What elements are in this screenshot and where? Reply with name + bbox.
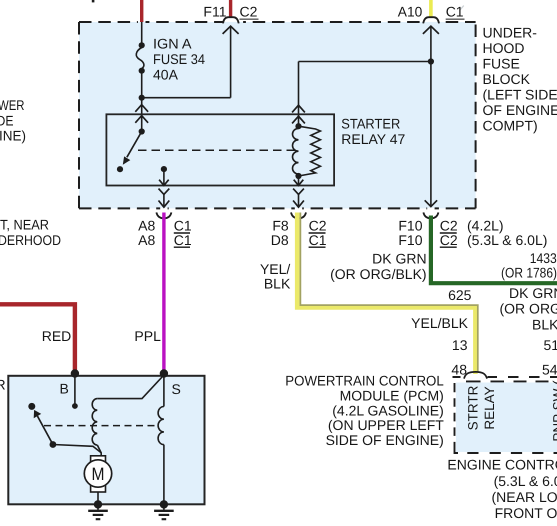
wire F11 internal vertical: [230, 26, 232, 97]
chevron below relay A8: [159, 189, 170, 195]
terminal B dot: [71, 369, 79, 377]
pull-in winding coil arcs: [92, 399, 97, 445]
svg-text:M: M: [92, 464, 105, 484]
wire red to F11 connector: [229, 0, 232, 18]
svg-text:40A: 40A: [153, 66, 179, 82]
svg-text:B: B: [60, 380, 69, 396]
starter relay 47 box: [106, 114, 334, 185]
ground symbol motor: [97, 504, 99, 509]
PCM top border dashed row 2: [466, 380, 549, 382]
svg-text:OF ENGINE: OF ENGINE: [483, 102, 557, 118]
svg-text:DK GRN: DK GRN: [509, 285, 557, 301]
relay switch rest contact dot: [117, 166, 123, 172]
hold-in winding coil arcs: [158, 407, 164, 445]
svg-text:(LEFT SIDE: (LEFT SIDE: [483, 87, 557, 103]
wire hold-in winding to ground: [163, 445, 165, 501]
svg-text:STRTRRELAY: STRTRRELAY: [466, 385, 497, 430]
svg-text:F10: F10: [398, 232, 422, 248]
svg-text:C1: C1: [309, 232, 327, 248]
chevron up arrow below A10: [423, 26, 439, 34]
chevron pair at relay switch input: [135, 105, 148, 112]
pinion switch contact dot: [28, 403, 35, 410]
relay coil resistor zigzag: [299, 126, 321, 176]
wire S to pull-in winding: [97, 375, 164, 399]
svg-text:RED: RED: [42, 328, 72, 344]
svg-text:(NEAR LOWER: (NEAR LOWER: [492, 489, 557, 505]
svg-text:COMPT): COMPT): [483, 118, 538, 134]
wire PPL A8 to starter S: [162, 213, 165, 372]
svg-text:YEL/BLK: YEL/BLK: [411, 315, 468, 331]
arrowhead onto fuse block border F10: [425, 200, 437, 206]
fuse F34 element squiggle: [136, 48, 144, 69]
svg-text:1433: 1433: [530, 250, 557, 266]
svg-text:D8: D8: [271, 232, 289, 248]
underhood fuse block dashed border bottom: [79, 207, 476, 209]
relay switch blade arrowhead: [123, 156, 131, 164]
relay switch output contact dot: [161, 166, 167, 172]
svg-text:DK GRN: DK GRN: [372, 251, 426, 267]
wire RED thick battery to starter B: [0, 304, 75, 371]
wire pull-in winding to motor: [97, 445, 101, 456]
svg-text:C1: C1: [174, 232, 192, 248]
wire DK GRN from F10: [431, 216, 557, 284]
connector F11 bump: [223, 17, 239, 23]
pinion switch blade arrowhead: [34, 410, 42, 418]
svg-text:UNDER-: UNDER-: [483, 25, 538, 41]
svg-text:R: R: [0, 376, 6, 392]
underhood fuse block dashed border top: [79, 21, 476, 23]
wire fuse bottom to junction: [141, 71, 143, 98]
svg-text:(ON UPPER LEFT: (ON UPPER LEFT: [328, 417, 444, 433]
fuse F34 top terminal dot: [139, 42, 145, 48]
ground dot hold-in winding: [160, 500, 168, 508]
svg-text:IGN A: IGN A: [153, 35, 192, 51]
PCM box fill: [456, 383, 557, 453]
starter motor box: [8, 376, 204, 505]
wire motor to ground: [97, 492, 99, 501]
node junction A10 branch: [428, 58, 434, 64]
chevron below relay F8: [293, 189, 304, 195]
svg-text:FRONT OF: FRONT OF: [495, 505, 557, 521]
svg-text:SIDE OF ENGINE): SIDE OF ENGINE): [326, 432, 444, 448]
svg-text:A8: A8: [138, 232, 155, 248]
svg-text:FUSE 34: FUSE 34: [153, 51, 205, 67]
wire pinion switch to motor node: [53, 445, 101, 453]
svg-text:BLK): BLK): [532, 316, 557, 332]
svg-text:PNP SW (: PNP SW (: [551, 380, 557, 442]
wire S vertical to hold-in winding: [163, 374, 165, 407]
connector A10 bump: [423, 17, 439, 23]
terminal B stub wire: [74, 377, 76, 404]
arrowhead onto relay border F8: [294, 180, 304, 186]
svg-text:DERHOOD: DERHOOD: [0, 232, 61, 248]
wire YEL/BLK F8 to PCM pin 48: [297, 213, 475, 375]
terminal S dot: [160, 369, 168, 377]
svg-text:(OR 1786): (OR 1786): [501, 265, 557, 281]
PCM connector 48 bump: [464, 372, 487, 379]
connector F10 cup: [423, 212, 438, 218]
svg-text:WER: WER: [0, 97, 25, 113]
wire YEL/BLK black stripe: [300, 213, 477, 372]
svg-text:C2: C2: [240, 4, 258, 20]
svg-text:T, NEAR: T, NEAR: [0, 217, 49, 233]
relay coil bottom dot: [295, 173, 301, 179]
arrowhead onto fuse block border A8: [163, 194, 165, 207]
svg-text:FUSE: FUSE: [483, 56, 520, 72]
svg-text:INE): INE): [0, 128, 26, 144]
svg-text:DE: DE: [0, 112, 14, 128]
underhood fuse block dashed border right: [475, 25, 477, 209]
svg-text:MODULE (PCM): MODULE (PCM): [340, 388, 444, 404]
svg-text:(OR ORG/BLK): (OR ORG/BLK): [330, 266, 426, 282]
connector A8 cup: [156, 212, 171, 218]
svg-text:C1: C1: [446, 4, 464, 20]
motor M circle: [84, 460, 111, 487]
chevron pair at relay coil input: [292, 105, 305, 112]
wire yellow to A10 connector: [429, 0, 433, 18]
fuse IGN A feed wire: [141, 22, 143, 45]
wire F11 internal horizontal to fuse bottom: [142, 97, 231, 99]
wire branch horizontal to relay coil: [299, 61, 431, 63]
svg-text:BLOCK: BLOCK: [483, 71, 531, 87]
svg-text:PPL: PPL: [134, 328, 161, 344]
wire F11 internal: chevron up arrow: [223, 26, 239, 34]
relay mechanical dashed link: [138, 149, 296, 151]
wire branch vertical to relay coil: [298, 62, 300, 127]
connector F8 cup: [291, 212, 306, 218]
starter mechanical dashed link: [44, 425, 159, 427]
svg-text:F11: F11: [203, 4, 226, 20]
pinion switch blade: [37, 416, 53, 445]
relay coil output F8: wire to relay border: [298, 176, 300, 185]
svg-text:(OR ORG/: (OR ORG/: [500, 300, 557, 316]
relay coil top dot: [295, 123, 301, 129]
PCM top border dashed row 1: [453, 376, 557, 378]
PCM bottom border dashed: [467, 452, 557, 454]
svg-text:BLK: BLK: [264, 276, 291, 292]
pinion switch pivot dot: [50, 441, 57, 448]
underhood fuse block dashed border left: [78, 22, 80, 208]
arrowhead onto fuse block border F8: [298, 194, 300, 207]
svg-text:HOOD: HOOD: [483, 40, 525, 56]
ground dot motor: [94, 500, 102, 508]
stray gray mark near top right: [460, 6, 464, 11]
stray mark top edge: [92, 0, 95, 2]
svg-text:RELAY 47: RELAY 47: [341, 131, 405, 147]
svg-text:POWERTRAIN CONTROL: POWERTRAIN CONTROL: [285, 373, 444, 389]
svg-text:54: 54: [542, 361, 557, 377]
svg-text:51: 51: [544, 337, 557, 353]
wire A10 internal vertical: [430, 26, 432, 206]
arrowhead onto relay border A8: [159, 180, 169, 186]
relay switch pivot dot: [139, 128, 145, 134]
border gaps at wire crossings: [138, 21, 444, 211]
motor M brush frame: [91, 456, 106, 492]
relay coil winding arcs: [293, 128, 299, 174]
svg-text:13: 13: [452, 337, 468, 353]
svg-text:C2: C2: [440, 232, 458, 248]
fuse F34 bottom terminal dot: [139, 68, 145, 74]
terminal B stub end dot: [72, 403, 78, 409]
svg-text:(4.2L GASOLINE): (4.2L GASOLINE): [332, 402, 444, 418]
PCM left border dashed: [455, 383, 459, 453]
relay switch blade: [127, 132, 142, 158]
relay output A8: wire from contact to relay border: [163, 169, 165, 185]
node junction fuse / F11: [139, 95, 145, 101]
svg-text:48: 48: [451, 361, 467, 377]
wire red battery feed to fuse: [140, 0, 143, 22]
svg-text:STARTER: STARTER: [341, 116, 400, 132]
svg-text:(5.3L & 6.0L): (5.3L & 6.0L): [467, 232, 547, 248]
ground symbol hold-in winding: [163, 504, 165, 509]
svg-text:S: S: [172, 381, 181, 397]
svg-text:(5.3L & 6.0L: (5.3L & 6.0L: [494, 473, 557, 489]
svg-text:625: 625: [448, 287, 472, 303]
svg-text:ENGINE CONTROL: ENGINE CONTROL: [447, 457, 557, 473]
svg-text:A10: A10: [398, 4, 423, 20]
wire fuse to relay switch vertical: [141, 98, 143, 132]
underhood fuse block fill: [79, 22, 476, 208]
